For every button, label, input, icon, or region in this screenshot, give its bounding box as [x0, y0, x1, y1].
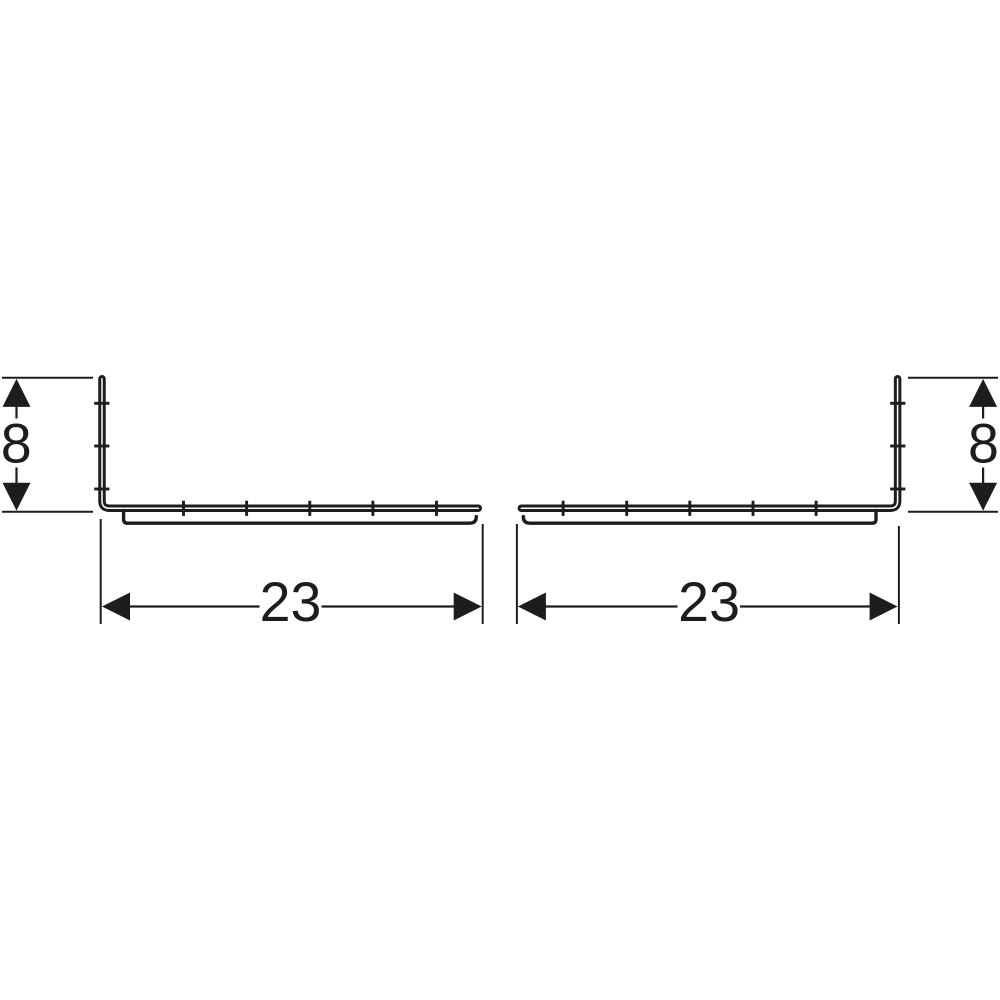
dimension 8 right: extension lines [908, 378, 998, 512]
right bracket horizontal flange tick marks [563, 501, 816, 516]
dimension 23 left: left arrowhead [102, 593, 130, 621]
dimension 23 left: right arrowhead [454, 593, 482, 621]
left bracket L-profile outline [102, 379, 478, 508]
dimension 8 right: down arrowhead [969, 483, 997, 511]
dimension 8 right: dimension line segments [982, 406, 984, 485]
left bracket L-profile white core line [102, 379, 478, 508]
dimension 8 left: extension lines [2, 378, 93, 512]
right bracket L-profile white core line (mirrored) [521, 379, 897, 508]
dimension 8 left: up arrowhead [3, 379, 31, 407]
left bracket vertical flange tick marks [94, 403, 109, 489]
dimension 23 right: extension lines [517, 524, 899, 624]
dimension 23 right: dimension line segments [545, 605, 871, 607]
svg-text:23: 23 [260, 571, 322, 633]
right bracket L-profile outline (mirrored) [521, 379, 897, 508]
dimension 8 left: down arrowhead [3, 483, 31, 511]
dimension 8 left: dimension line segments [15, 406, 17, 485]
dimension 23 right: right arrowhead [870, 593, 898, 621]
svg-text:8: 8 [968, 412, 999, 474]
svg-text:8: 8 [1, 412, 32, 474]
left bracket horizontal flange tick marks [184, 501, 437, 516]
svg-text:23: 23 [678, 571, 740, 633]
left bracket bottom hem (return lip) [124, 510, 477, 523]
right bracket bottom hem (return lip, mirrored) [523, 510, 876, 523]
dimension 23 left: dimension line segments [129, 605, 455, 607]
dimension 8 right: up arrowhead [969, 379, 997, 407]
dimension 23 left: extension lines [101, 519, 483, 624]
dimension 23 right: left arrowhead [518, 593, 546, 621]
right bracket vertical flange tick marks [890, 403, 905, 489]
